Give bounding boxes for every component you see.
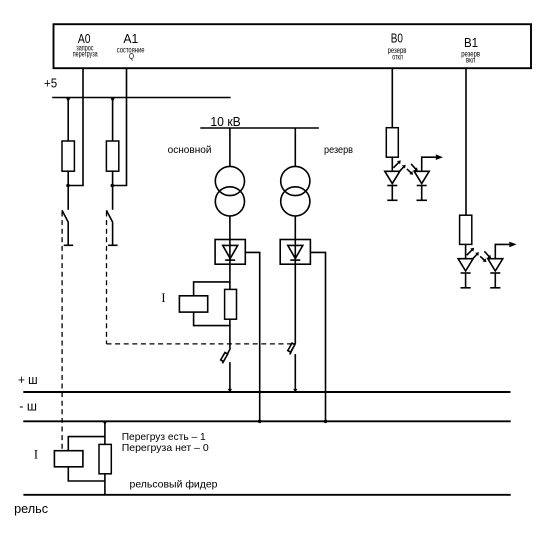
wire R2 to switch S2 bbox=[112, 171, 114, 210]
pin label A1 bbox=[117, 31, 145, 61]
wire B1 pin to R4 bbox=[465, 68, 467, 215]
junction dot R1/A0 bbox=[66, 184, 70, 188]
svg-text:перегруза: перегруза bbox=[73, 50, 98, 59]
svg-text:рельсовый фидер: рельсовый фидер bbox=[130, 479, 218, 491]
resistor R2 bbox=[106, 141, 118, 171]
terminal bar D1 bbox=[387, 199, 397, 201]
svg-text:резерв: резерв bbox=[324, 144, 353, 156]
wire T1 to thyristor box V1 bbox=[229, 216, 231, 240]
wire -sh to R6 bbox=[104, 421, 106, 444]
LED D1 emission arrows bbox=[393, 160, 405, 171]
switch S2 bottom terminal bar bbox=[108, 244, 118, 246]
svg-text:+ ш: + ш bbox=[18, 372, 38, 387]
V1 diode cathode bar bbox=[225, 259, 235, 261]
junction triangle rail feeder on -sh bbox=[103, 422, 107, 425]
relay K1 coil bbox=[179, 296, 207, 312]
switch S2 blade bbox=[106, 210, 112, 222]
junction dot R2/A1 bbox=[111, 184, 115, 188]
rail feeder line bbox=[23, 494, 510, 496]
thyristor box V1 bbox=[215, 240, 245, 265]
resistor R5 bbox=[225, 289, 237, 319]
wire A0 pin to switch junction bbox=[68, 68, 83, 185]
wire A1 pin to switch junction bbox=[112, 68, 126, 185]
junction dot V1 gate on -sh bbox=[258, 420, 262, 424]
controller port box U1 bbox=[54, 24, 532, 68]
wire 10kV to transformer T1 bbox=[229, 128, 231, 167]
terminal bar D2 bbox=[417, 199, 428, 201]
-sh bus bbox=[23, 420, 510, 422]
relay K2 branch top wire bbox=[68, 437, 105, 451]
svg-text:B1: B1 bbox=[464, 35, 478, 50]
transformer T1 bbox=[215, 166, 244, 195]
pin label B0 bbox=[388, 30, 407, 61]
V1 wire through box bbox=[229, 240, 231, 265]
V2 diode cathode bar bbox=[290, 259, 300, 261]
pin label B1 bbox=[461, 35, 480, 64]
+sh bus bbox=[23, 391, 510, 393]
photodiode D4 cathode bar bbox=[490, 272, 500, 274]
V1 diode triangle bbox=[223, 245, 238, 258]
wire Q1 to +sh bus bbox=[229, 362, 231, 392]
LED D3 triangle bbox=[458, 259, 473, 271]
junction dot V2 gate on -sh bbox=[324, 420, 328, 424]
svg-text:I: I bbox=[34, 447, 38, 461]
switch S2 mechanical link vertical (dashed) bbox=[106, 212, 108, 344]
wire B0 pin to R3 bbox=[391, 68, 393, 128]
terminal bar D4 bbox=[490, 287, 500, 289]
10 kV bus bbox=[200, 127, 319, 129]
resistor R6 bbox=[99, 444, 111, 473]
wire rail to R1 bbox=[67, 98, 69, 142]
svg-text:+5: +5 bbox=[44, 76, 57, 91]
thyristor box V2 bbox=[280, 240, 310, 265]
LED D1 cathode bar bbox=[387, 185, 397, 187]
photodiode D4 triangle bbox=[488, 259, 503, 271]
wire 10kV to transformer T2 bbox=[294, 128, 296, 167]
resistor R4 bbox=[460, 215, 472, 244]
breaker Q1 blade bbox=[222, 348, 230, 363]
D2 output wire with arrow bbox=[422, 157, 436, 171]
svg-text:10 кВ: 10 кВ bbox=[210, 114, 240, 129]
wire R6 to rail line bbox=[104, 474, 106, 495]
wire D1 to terminal bbox=[391, 186, 393, 201]
wire D2 to terminal bbox=[421, 186, 423, 201]
junction triangle on +5 rail at R1 bbox=[66, 98, 70, 101]
junction triangle Q1 on +sh bbox=[228, 389, 232, 392]
switch S1 lower wire bbox=[67, 223, 69, 246]
svg-text:Перегруза нет – 0: Перегруза нет – 0 bbox=[122, 442, 209, 454]
svg-text:B0: B0 bbox=[391, 30, 403, 45]
switch S1 mechanical link (dashed) bbox=[61, 212, 63, 450]
svg-text:откл: откл bbox=[392, 52, 403, 61]
mechanical link horizontal to breakers (dashed) bbox=[107, 343, 294, 345]
relay K1 branch bottom wire bbox=[194, 312, 230, 326]
relay K1 branch top wire bbox=[194, 282, 230, 296]
LED D3 emission arrows bbox=[467, 248, 479, 259]
D4 output wire with arrow bbox=[495, 244, 509, 258]
transformer T2 bbox=[281, 166, 310, 195]
svg-text:Q: Q bbox=[129, 52, 134, 61]
wire V2 to breaker Q2 bbox=[294, 264, 296, 343]
svg-text:основной: основной bbox=[168, 144, 212, 156]
switch S1 blade bbox=[62, 210, 68, 222]
breaker Q1 blade rect bbox=[221, 352, 228, 361]
relay K2 coil bbox=[54, 451, 83, 467]
pin label A0 bbox=[73, 31, 98, 58]
V2 gate wire to -sh bus bbox=[310, 252, 325, 421]
wire D4 to terminal bbox=[494, 273, 496, 288]
wire R4 to LED D3 bbox=[465, 244, 467, 258]
resistor R3 bbox=[386, 128, 398, 158]
photodiode D2 receive arrows bbox=[407, 164, 418, 175]
photodiode D4 receive arrows bbox=[480, 251, 491, 262]
wire V1 to current relay block bbox=[229, 264, 231, 289]
V1 gate wire to -sh bus bbox=[245, 252, 259, 421]
wire R5 to breaker Q1 bbox=[229, 319, 231, 348]
+5 supply rail bbox=[52, 97, 230, 99]
breaker Q2 blade rect bbox=[288, 343, 295, 352]
svg-text:вкл: вкл bbox=[466, 55, 476, 64]
V2 wire through box bbox=[294, 240, 296, 265]
breaker Q2 blade bbox=[290, 342, 296, 354]
wire R1 to switch S1 bbox=[67, 171, 69, 210]
relay K2 branch bottom wire bbox=[68, 467, 105, 481]
wire Q2 to +sh bus bbox=[294, 354, 296, 392]
resistor R1 bbox=[62, 141, 74, 171]
V2 diode triangle bbox=[288, 245, 303, 258]
wire rail to R2 bbox=[112, 98, 114, 142]
photodiode D2 cathode bar bbox=[417, 185, 427, 187]
svg-text:A1: A1 bbox=[123, 31, 138, 46]
junction triangle on +5 rail at R2 bbox=[110, 98, 114, 101]
LED D1 triangle bbox=[385, 171, 400, 183]
switch S2 lower wire bbox=[112, 223, 114, 246]
svg-text:- ш: - ш bbox=[19, 398, 37, 413]
wire D3 to terminal bbox=[465, 273, 467, 288]
junction triangle Q2 on +sh bbox=[293, 389, 297, 392]
terminal bar D3 bbox=[461, 287, 471, 289]
LED D3 cathode bar bbox=[461, 272, 471, 274]
wire R3 to LED D1 bbox=[391, 157, 393, 171]
switch S1 bottom terminal bar bbox=[64, 244, 73, 246]
photodiode D2 triangle bbox=[414, 171, 429, 183]
svg-text:рельс: рельс bbox=[14, 502, 48, 516]
svg-text:I: I bbox=[161, 291, 165, 305]
wire T2 to thyristor box V2 bbox=[294, 216, 296, 240]
